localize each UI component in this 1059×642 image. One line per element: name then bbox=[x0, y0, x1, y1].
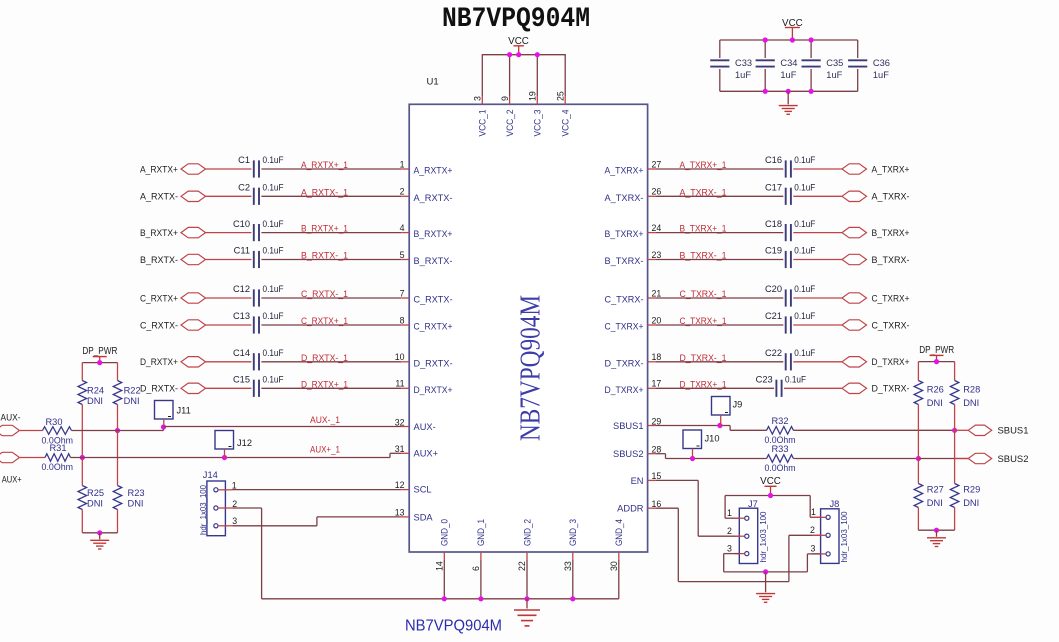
svg-text:GND_0: GND_0 bbox=[440, 519, 450, 546]
svg-text:C13: C13 bbox=[233, 311, 250, 321]
wire C10 to pin 4 bbox=[261, 232, 401, 234]
svg-text:14: 14 bbox=[434, 561, 444, 571]
svg-text:R23: R23 bbox=[128, 488, 145, 498]
svg-text:A_TXRX+: A_TXRX+ bbox=[605, 166, 644, 176]
svg-text:R22: R22 bbox=[124, 386, 141, 396]
pin 33 GND_3 bbox=[572, 552, 574, 560]
svg-text:3: 3 bbox=[232, 516, 237, 526]
svg-text:R29: R29 bbox=[963, 484, 980, 494]
svg-text:GND_3: GND_3 bbox=[568, 519, 578, 546]
pin 1 A_RXTX+ bbox=[401, 168, 409, 170]
jumper pad J11 bbox=[155, 401, 174, 420]
pin 3 of J7 bbox=[735, 553, 745, 555]
wire AUX- to pin 32 bbox=[164, 426, 402, 428]
wire pin 26 to C17 bbox=[656, 195, 784, 197]
svg-text:D_RXTX+: D_RXTX+ bbox=[140, 357, 178, 367]
svg-text:28: 28 bbox=[652, 444, 662, 454]
svg-text:C16: C16 bbox=[765, 155, 782, 165]
svg-text:6: 6 bbox=[471, 566, 481, 571]
resistor R32 0.0Ohm bbox=[767, 427, 794, 435]
wire AUX+ port to R31 bbox=[20, 457, 45, 459]
pin 1 of J7 bbox=[735, 517, 745, 519]
svg-text:C33: C33 bbox=[735, 58, 752, 68]
wire A_RXTX- to C2 bbox=[206, 195, 252, 197]
svg-text:R32: R32 bbox=[771, 416, 788, 426]
svg-text:NB7VPQ904M: NB7VPQ904M bbox=[405, 618, 502, 635]
svg-text:0.1uF: 0.1uF bbox=[263, 311, 284, 321]
pin 8 C_RXTX+ bbox=[401, 324, 409, 326]
svg-text:2: 2 bbox=[400, 187, 405, 197]
port D_TXRX+ bbox=[842, 357, 867, 367]
svg-text:VCC_3: VCC_3 bbox=[533, 110, 543, 137]
junction (VCC J7/J8) bbox=[768, 493, 773, 498]
svg-text:C22: C22 bbox=[765, 348, 782, 358]
wire pin 24 to C18 bbox=[656, 232, 784, 234]
svg-text:A_RXTX+: A_RXTX+ bbox=[414, 166, 453, 176]
wire R28 below SBUS1 bbox=[954, 430, 956, 483]
svg-text:B_RXTX+: B_RXTX+ bbox=[414, 229, 453, 239]
resistor R24 DNI bbox=[81, 363, 83, 381]
svg-text:SBUS1: SBUS1 bbox=[613, 421, 644, 431]
svg-text:22: 22 bbox=[517, 561, 527, 571]
svg-text:1uF: 1uF bbox=[826, 70, 842, 80]
svg-text:R25: R25 bbox=[87, 488, 104, 498]
pin 28 SBUS2 bbox=[648, 453, 656, 455]
svg-text:ADDR: ADDR bbox=[617, 504, 644, 514]
wire DP_PWR bottom bar (left) bbox=[81, 510, 83, 533]
capacitor C17 0.1uF bbox=[785, 188, 787, 205]
svg-text:1uF: 1uF bbox=[873, 70, 889, 80]
ground (bottom bus) bbox=[526, 599, 528, 609]
svg-text:B_RXTX+_1: B_RXTX+_1 bbox=[301, 224, 348, 235]
wire C15 to pin 11 bbox=[261, 387, 401, 389]
capacitor C11 0.1uF bbox=[253, 251, 255, 268]
svg-text:hdr_1x03_100: hdr_1x03_100 bbox=[759, 511, 768, 563]
svg-text:AUX+: AUX+ bbox=[2, 475, 22, 485]
wire DP_PWR top bar (right) bbox=[918, 361, 954, 363]
capacitor C15 0.1uF bbox=[253, 380, 255, 397]
pin 10 D_RXTX- bbox=[401, 361, 409, 363]
svg-text:C_RXTX-: C_RXTX- bbox=[414, 295, 453, 305]
svg-text:SBUS1: SBUS1 bbox=[998, 426, 1029, 436]
svg-text:2: 2 bbox=[727, 526, 732, 536]
wire C16 to port A_TXRX+ bbox=[793, 168, 842, 170]
pin 30 GND_4 bbox=[618, 552, 620, 560]
svg-text:C_RXTX-: C_RXTX- bbox=[140, 320, 178, 330]
svg-text:C14: C14 bbox=[233, 348, 250, 358]
capacitor C1 0.1uF bbox=[253, 160, 255, 177]
wire C1 to pin 1 bbox=[261, 168, 401, 170]
wire D_RXTX- to C15 bbox=[206, 387, 252, 389]
svg-text:R26: R26 bbox=[927, 385, 944, 395]
svg-text:R28: R28 bbox=[963, 385, 980, 395]
wire J12 stub bbox=[224, 449, 226, 458]
capacitor C19 0.1uF bbox=[785, 251, 787, 268]
resistor R31 0.0Ohm bbox=[45, 454, 71, 462]
wire pin 27 to C16 bbox=[656, 168, 784, 170]
svg-text:0.1uF: 0.1uF bbox=[794, 284, 815, 294]
svg-text:AUX+: AUX+ bbox=[414, 449, 439, 459]
wire R30 to J11 junction bbox=[72, 430, 164, 432]
svg-text:0.1uF: 0.1uF bbox=[794, 311, 815, 321]
wire ADDR to J8 pin2 bbox=[656, 507, 679, 509]
wire pin 20 to C21 bbox=[656, 324, 784, 326]
svg-text:19: 19 bbox=[528, 91, 538, 101]
port B_TXRX- bbox=[842, 254, 867, 264]
wire J14 pin2 down to ground bus bbox=[233, 507, 262, 509]
svg-text:5: 5 bbox=[400, 250, 405, 260]
svg-text:A_RXTX-: A_RXTX- bbox=[140, 192, 178, 202]
wire A_RXTX+ to C1 bbox=[206, 168, 252, 170]
jumper pad J12 bbox=[215, 431, 234, 450]
pin 2 of J7 bbox=[735, 535, 745, 537]
svg-text:R33: R33 bbox=[771, 444, 788, 454]
wire J14 pin3 to SDA bbox=[233, 525, 317, 527]
svg-text:26: 26 bbox=[652, 187, 662, 197]
junction (R26 branch to SBUS2) bbox=[916, 456, 921, 461]
svg-text:R31: R31 bbox=[49, 443, 66, 453]
wire C14 to pin 10 bbox=[261, 361, 401, 363]
port AUX+ bbox=[0, 452, 20, 462]
svg-text:A_RXTX-_1: A_RXTX-_1 bbox=[301, 187, 348, 198]
pin 7 C_RXTX- bbox=[401, 297, 409, 299]
svg-text:4: 4 bbox=[400, 223, 405, 233]
port C_RXTX- bbox=[181, 320, 206, 330]
pin 12 SCL bbox=[401, 489, 409, 491]
svg-text:GND_4: GND_4 bbox=[614, 519, 624, 546]
IC U1 body bbox=[409, 104, 647, 552]
svg-text:R27: R27 bbox=[927, 484, 944, 494]
port B_TXRX+ bbox=[842, 227, 867, 237]
port C_TXRX+ bbox=[842, 293, 867, 303]
svg-text:VCC_1: VCC_1 bbox=[478, 110, 488, 137]
wire J9 stub bbox=[720, 415, 722, 426]
svg-text:0.0Ohm: 0.0Ohm bbox=[42, 462, 74, 472]
svg-text:30: 30 bbox=[609, 561, 619, 571]
svg-text:1uF: 1uF bbox=[735, 70, 751, 80]
wire pin 17 to C23 bbox=[656, 387, 774, 389]
pin 2 A_RXTX- bbox=[401, 195, 409, 197]
resistor R27 DNI bbox=[917, 459, 919, 484]
capacitor C16 0.1uF bbox=[785, 160, 787, 177]
junction (J9 to SBUS1) bbox=[717, 423, 722, 428]
wire C_RXTX- to C13 bbox=[206, 324, 252, 326]
capacitor C22 0.1uF bbox=[785, 353, 787, 370]
svg-text:C34: C34 bbox=[780, 58, 797, 68]
pin 13 SDA bbox=[401, 516, 409, 518]
svg-text:17: 17 bbox=[652, 379, 662, 389]
junction (DP_PWR left top) bbox=[97, 360, 102, 365]
svg-text:J14: J14 bbox=[203, 470, 218, 480]
capacitor C33 bbox=[719, 40, 721, 58]
svg-text:R30: R30 bbox=[45, 417, 62, 427]
svg-text:C21: C21 bbox=[765, 311, 782, 321]
wire pin 21 to C20 bbox=[656, 297, 784, 299]
pin 6 GND_1 bbox=[480, 552, 482, 560]
wire J11 stub bbox=[163, 419, 165, 427]
pin 19 VCC_3 bbox=[536, 55, 538, 96]
svg-text:J8: J8 bbox=[830, 499, 840, 509]
svg-text:C35: C35 bbox=[826, 58, 843, 68]
svg-text:B_TXRX-: B_TXRX- bbox=[872, 255, 910, 265]
capacitor C10 0.1uF bbox=[253, 224, 255, 241]
svg-text:J9: J9 bbox=[733, 400, 743, 410]
svg-text:0.1uF: 0.1uF bbox=[263, 219, 284, 229]
resistor R33 0.0Ohm bbox=[767, 455, 794, 463]
port SBUS2 bbox=[968, 453, 992, 463]
svg-text:16: 16 bbox=[652, 499, 662, 509]
resistor R28 DNI bbox=[954, 362, 956, 381]
svg-text:1: 1 bbox=[400, 159, 405, 169]
resistor R30 0.0Ohm bbox=[43, 427, 72, 435]
svg-text:C_RXTX+: C_RXTX+ bbox=[414, 322, 453, 332]
wire R22 branch down to AUX- line bbox=[117, 405, 119, 431]
pin 18 D_TXRX- bbox=[648, 361, 656, 363]
svg-text:9: 9 bbox=[500, 96, 510, 101]
ground (J7/J8) bbox=[765, 572, 767, 592]
junction (DP_PWR right top) bbox=[934, 359, 939, 364]
wire R33 to SBUS2 port bbox=[793, 458, 918, 460]
svg-text:D_TXRX+: D_TXRX+ bbox=[872, 357, 910, 367]
wire jog to pin 31 bbox=[389, 453, 391, 457]
svg-text:32: 32 bbox=[395, 417, 405, 427]
wire C11 to pin 5 bbox=[261, 259, 401, 261]
port A_RXTX- bbox=[181, 191, 206, 201]
svg-text:D_TXRX-: D_TXRX- bbox=[872, 384, 910, 394]
svg-text:D_RXTX+_1: D_RXTX+_1 bbox=[301, 379, 348, 390]
svg-text:18: 18 bbox=[652, 352, 662, 362]
junction (J12 to AUX+) bbox=[222, 455, 227, 460]
resistor R25 DNI bbox=[81, 458, 83, 486]
pin 9 VCC_2 bbox=[509, 55, 511, 96]
pin 29 SBUS1 bbox=[648, 425, 656, 427]
ground (right DP_PWR) bbox=[936, 530, 938, 537]
svg-text:A_RXTX+: A_RXTX+ bbox=[140, 164, 178, 174]
svg-text:A_TXRX-: A_TXRX- bbox=[605, 193, 644, 203]
junction (J7/J8 ground) bbox=[763, 569, 768, 574]
wire C_RXTX+ to C12 bbox=[206, 297, 252, 299]
svg-text:B_RXTX-: B_RXTX- bbox=[414, 256, 453, 266]
svg-text:A_TXRX-: A_TXRX- bbox=[872, 192, 910, 202]
svg-text:0.1uF: 0.1uF bbox=[263, 348, 284, 358]
svg-text:R24: R24 bbox=[87, 386, 104, 396]
junction (J11 to AUX-) bbox=[161, 424, 166, 429]
svg-text:B_TXRX-: B_TXRX- bbox=[605, 256, 644, 266]
svg-text:EN: EN bbox=[631, 476, 644, 486]
svg-text:SCL: SCL bbox=[414, 485, 432, 495]
svg-text:hdr_1x03_100: hdr_1x03_100 bbox=[840, 511, 849, 563]
svg-text:B_RXTX-: B_RXTX- bbox=[140, 255, 178, 265]
svg-text:0.1uF: 0.1uF bbox=[263, 246, 284, 256]
svg-text:27: 27 bbox=[652, 159, 662, 169]
svg-text:VCC_2: VCC_2 bbox=[505, 110, 515, 137]
svg-text:A_TXRX+: A_TXRX+ bbox=[872, 164, 910, 174]
svg-text:10: 10 bbox=[395, 352, 405, 362]
junction (decoupling bottom bus) bbox=[763, 89, 768, 94]
port SBUS1 bbox=[968, 425, 992, 435]
svg-text:0.1uF: 0.1uF bbox=[794, 155, 815, 165]
svg-text:C_TXRX-: C_TXRX- bbox=[872, 320, 910, 330]
svg-text:0.1uF: 0.1uF bbox=[785, 375, 806, 385]
resistor R29 DNI bbox=[950, 484, 959, 508]
port A_RXTX+ bbox=[181, 164, 206, 174]
capacitor C20 0.1uF bbox=[785, 289, 787, 306]
pin 31 AUX+ bbox=[401, 452, 409, 454]
svg-text:3: 3 bbox=[473, 96, 483, 101]
svg-text:U1: U1 bbox=[427, 77, 439, 88]
wire D_RXTX+ to C14 bbox=[206, 361, 252, 363]
svg-text:C1: C1 bbox=[238, 155, 250, 165]
svg-text:D_TXRX-: D_TXRX- bbox=[605, 358, 644, 368]
svg-text:C17: C17 bbox=[765, 183, 782, 193]
wire C23 to port D_TXRX- bbox=[784, 387, 842, 389]
svg-text:SDA: SDA bbox=[414, 512, 434, 522]
svg-text:C20: C20 bbox=[765, 284, 782, 294]
capacitor C34 bbox=[764, 40, 766, 58]
svg-text:J11: J11 bbox=[177, 406, 191, 416]
svg-text:C_RXTX+: C_RXTX+ bbox=[140, 293, 178, 303]
junction (right ground bar) bbox=[934, 528, 939, 533]
svg-text:0.1uF: 0.1uF bbox=[794, 246, 815, 256]
pin 3 VCC_1 bbox=[481, 55, 483, 96]
wire C17 to port A_TXRX- bbox=[793, 195, 842, 197]
capacitor C12 0.1uF bbox=[253, 289, 255, 306]
wire C2 to pin 2 bbox=[261, 195, 401, 197]
pin 3 of J14 bbox=[218, 525, 233, 527]
wire VCC to J7 pin1 and J8 pin1 bbox=[725, 495, 810, 497]
pin 2 of J8 bbox=[812, 534, 826, 536]
wire R28 branch down to SBUS1 line bbox=[954, 405, 956, 431]
wire EN to J7 pin2 bbox=[656, 479, 699, 481]
svg-text:C_TXRX-: C_TXRX- bbox=[605, 295, 644, 305]
port AUX- bbox=[0, 425, 20, 435]
wire pin29 to jog bbox=[656, 425, 731, 427]
svg-text:C11: C11 bbox=[234, 246, 250, 256]
svg-text:21: 21 bbox=[652, 288, 662, 298]
wire decoupling top bus bbox=[720, 39, 858, 41]
pin 24 B_TXRX+ bbox=[648, 232, 656, 234]
svg-text:DNI: DNI bbox=[963, 498, 979, 508]
wire R26 branch down to SBUS2 line bbox=[917, 405, 919, 459]
svg-text:DNI: DNI bbox=[963, 398, 979, 408]
capacitor C18 0.1uF bbox=[785, 224, 787, 241]
svg-text:20: 20 bbox=[652, 315, 662, 325]
pin 11 D_RXTX+ bbox=[401, 387, 409, 389]
svg-text:0.0Ohm: 0.0Ohm bbox=[765, 463, 796, 473]
port C_RXTX+ bbox=[181, 293, 206, 303]
pin 2 of J14 bbox=[218, 507, 233, 509]
pin 14 GND_0 bbox=[443, 552, 445, 560]
wire J8 pin3 to ground bbox=[806, 554, 808, 572]
svg-text:1: 1 bbox=[811, 507, 816, 517]
junction (J10 to SBUS2) bbox=[690, 456, 695, 461]
junction (ground bus) bbox=[442, 596, 447, 601]
svg-text:13: 13 bbox=[395, 508, 405, 518]
svg-text:B_TXRX+: B_TXRX+ bbox=[605, 229, 644, 239]
svg-text:hdr_1x03_100: hdr_1x03_100 bbox=[199, 484, 208, 535]
svg-text:VCC: VCC bbox=[760, 476, 781, 487]
svg-text:33: 33 bbox=[563, 561, 573, 571]
svg-text:3: 3 bbox=[811, 544, 816, 554]
svg-text:8: 8 bbox=[400, 315, 405, 325]
svg-text:C_TXRX+: C_TXRX+ bbox=[872, 293, 910, 303]
port C_TXRX- bbox=[842, 320, 867, 330]
svg-text:15: 15 bbox=[652, 471, 662, 481]
svg-text:D_RXTX-: D_RXTX- bbox=[140, 384, 178, 394]
port D_TXRX- bbox=[842, 383, 867, 393]
wire B_RXTX+ to C10 bbox=[206, 232, 252, 234]
svg-text:0.1uF: 0.1uF bbox=[794, 183, 815, 193]
wire VCC bus above U1 bbox=[482, 54, 566, 56]
wire C12 to pin 7 bbox=[261, 297, 401, 299]
pin 25 VCC_4 bbox=[564, 55, 566, 96]
port A_TXRX+ bbox=[842, 164, 867, 174]
svg-text:0.1uF: 0.1uF bbox=[263, 183, 284, 193]
wire R24 branch down to AUX+ line bbox=[81, 405, 83, 458]
junction (R28 branch to SBUS1) bbox=[952, 428, 957, 433]
svg-text:DNI: DNI bbox=[927, 398, 943, 408]
wire J10 stub bbox=[692, 449, 694, 459]
svg-text:12: 12 bbox=[395, 480, 405, 490]
pin 21 C_TXRX- bbox=[648, 297, 656, 299]
wire C22 to port D_TXRX+ bbox=[793, 361, 842, 363]
svg-text:A_RXTX+_1: A_RXTX+_1 bbox=[301, 160, 348, 171]
svg-text:DP_PWR: DP_PWR bbox=[919, 345, 954, 356]
svg-text:SBUS2: SBUS2 bbox=[613, 449, 644, 459]
pin 1 of J14 bbox=[218, 489, 233, 491]
svg-text:31: 31 bbox=[395, 444, 405, 454]
svg-text:C10: C10 bbox=[233, 219, 250, 229]
svg-text:11: 11 bbox=[395, 379, 404, 389]
svg-text:NB7VPQ904M: NB7VPQ904M bbox=[442, 4, 590, 35]
capacitor C2 0.1uF bbox=[253, 188, 255, 205]
pin 15 EN bbox=[648, 479, 656, 481]
svg-text:0.1uF: 0.1uF bbox=[263, 284, 284, 294]
pin 20 C_TXRX+ bbox=[648, 324, 656, 326]
pin 16 ADDR bbox=[648, 507, 656, 509]
pin 3 of J8 bbox=[812, 553, 826, 555]
svg-text:0.1uF: 0.1uF bbox=[794, 219, 815, 229]
svg-text:C2: C2 bbox=[238, 183, 250, 193]
svg-text:D_RXTX+: D_RXTX+ bbox=[414, 385, 453, 395]
svg-text:D_TXRX+: D_TXRX+ bbox=[605, 385, 644, 395]
pin 23 B_TXRX- bbox=[648, 259, 656, 261]
svg-text:C12: C12 bbox=[233, 284, 250, 294]
port D_RXTX+ bbox=[181, 357, 206, 367]
junction (VCC bus) bbox=[507, 52, 512, 57]
wire J14 pin1 to SCL bbox=[233, 489, 402, 491]
svg-text:C_RXTX+_1: C_RXTX+_1 bbox=[301, 316, 348, 327]
capacitor C14 0.1uF bbox=[253, 353, 255, 370]
resistor R23 DNI bbox=[117, 431, 119, 486]
wire DP_PWR bottom bar (right) bbox=[917, 508, 919, 531]
port D_RXTX- bbox=[181, 383, 206, 393]
svg-text:C23: C23 bbox=[756, 375, 773, 385]
svg-text:J12: J12 bbox=[237, 438, 252, 448]
svg-text:AUX-: AUX- bbox=[414, 422, 436, 432]
junction (decoupling top bus) bbox=[763, 37, 768, 42]
pin 26 A_TXRX- bbox=[648, 195, 656, 197]
svg-text:GND_2: GND_2 bbox=[522, 519, 532, 546]
svg-text:B_RXTX-_1: B_RXTX-_1 bbox=[301, 251, 348, 262]
svg-text:SBUS2: SBUS2 bbox=[998, 454, 1029, 464]
pin 5 B_RXTX- bbox=[401, 259, 409, 261]
svg-text:C_TXRX+: C_TXRX+ bbox=[605, 322, 644, 332]
capacitor C36 bbox=[857, 40, 859, 58]
junction (R24 to AUX+) bbox=[80, 455, 85, 460]
port B_RXTX+ bbox=[181, 227, 206, 237]
jumper pad J9 bbox=[712, 397, 731, 416]
